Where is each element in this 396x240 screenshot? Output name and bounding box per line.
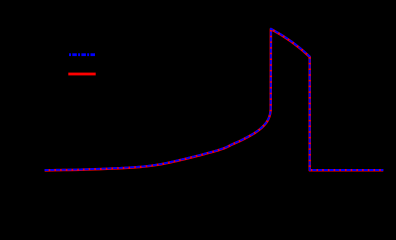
legend sample: red solid	[68, 73, 95, 76]
legend sample: blue dashed	[69, 53, 95, 56]
red solid curve (analytic solution)	[45, 29, 384, 170]
blue dashed curve (numerical solution)	[45, 29, 384, 170]
